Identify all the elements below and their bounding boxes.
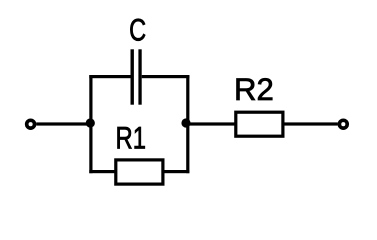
- wire (top branch, left of capacitor): [89, 75, 132, 78]
- wire (right vertical branch of parallel loop): [186, 75, 189, 173]
- wire (R2 to right terminal): [284, 122, 338, 125]
- svg-text:C: C: [129, 12, 146, 47]
- terminal (right output): [339, 120, 347, 128]
- wire (left terminal to node A): [36, 122, 90, 125]
- wire (node B to R2): [187, 122, 235, 125]
- wire (top branch, right of capacitor): [142, 75, 190, 78]
- svg-text:R1: R1: [116, 120, 147, 155]
- node B (right junction dot): [181, 118, 190, 127]
- resistor R2: [236, 112, 283, 136]
- node A (left junction dot): [86, 118, 95, 127]
- wire (bottom branch, left of R1): [89, 170, 115, 173]
- wire (bottom branch, right of R1): [164, 170, 190, 173]
- resistor R1: [116, 160, 163, 184]
- svg-text:R2: R2: [234, 72, 274, 107]
- terminal (left input): [27, 120, 35, 128]
- capacitor C (two plates): [131, 49, 142, 104]
- wire (left vertical branch of parallel loop): [89, 75, 92, 173]
